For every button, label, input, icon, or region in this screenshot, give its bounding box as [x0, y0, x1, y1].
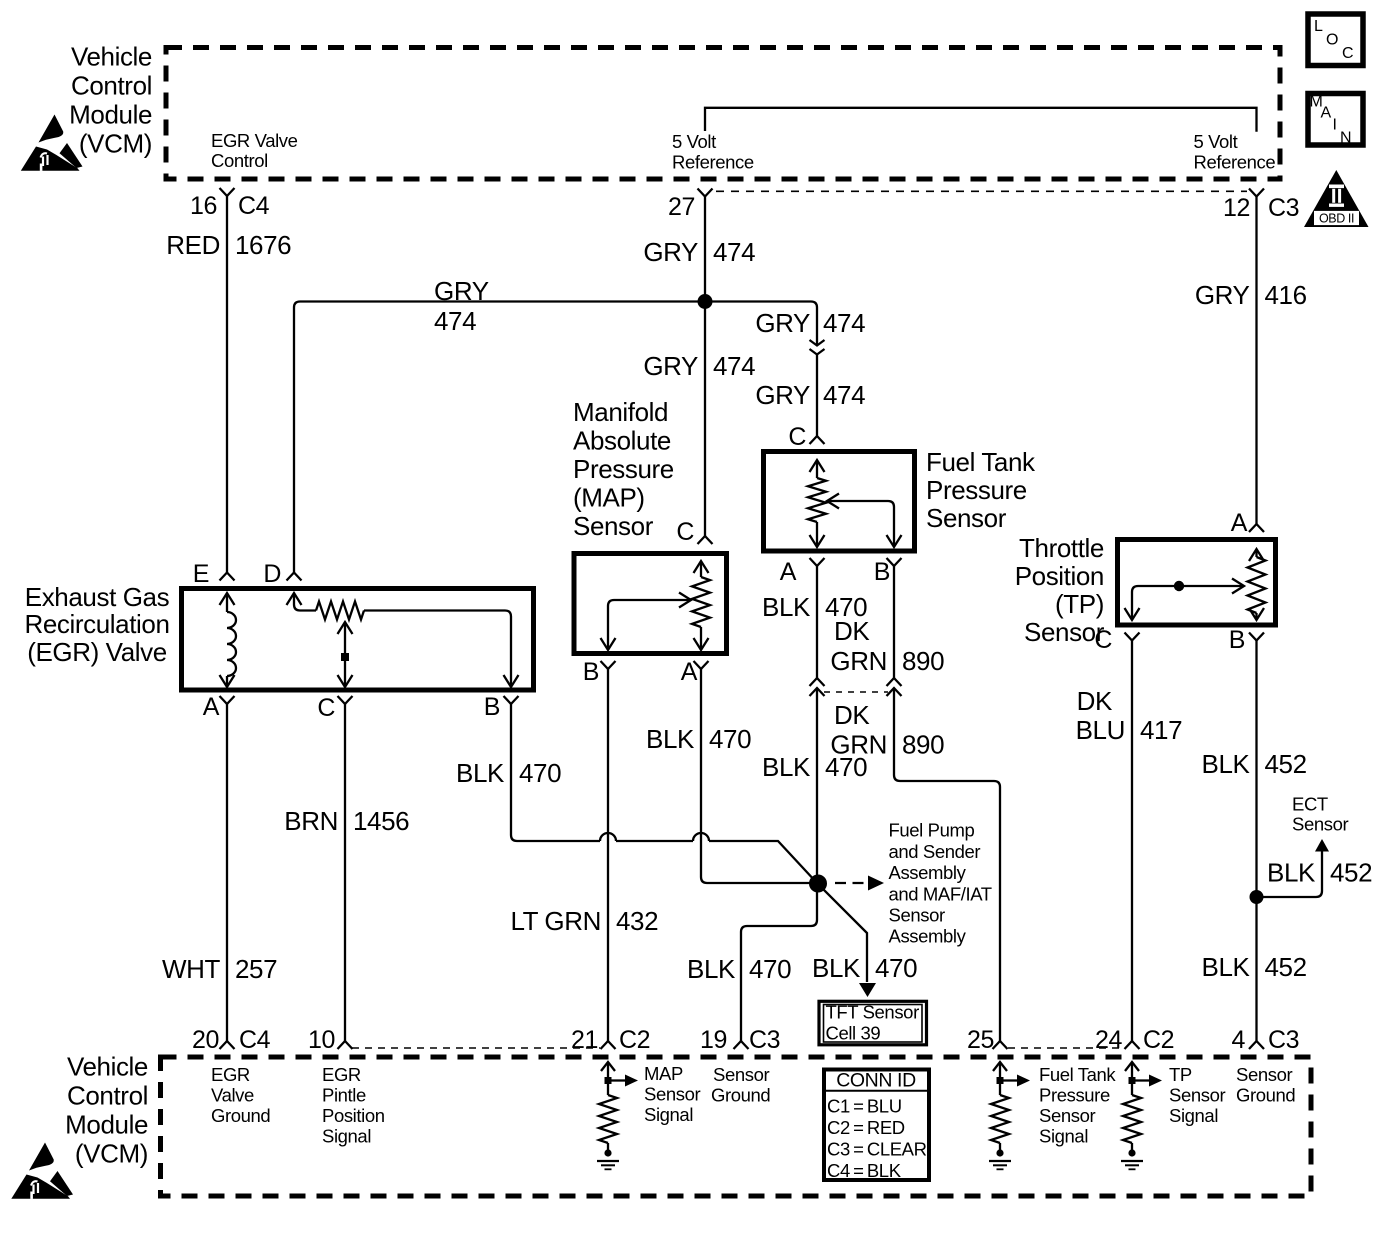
svg-text:Cell 39: Cell 39 — [826, 1023, 881, 1044]
component: CONN ID table — [824, 1070, 929, 1182]
wire: GRY 474 (pin 27 down to MAP pin C) — [704, 197, 706, 537]
TP sensor wiper arrow with dot — [1125, 579, 1245, 621]
svg-text:C2: C2 — [1143, 1026, 1174, 1054]
MAP sensor wiper arrow — [601, 593, 692, 651]
svg-text:890: 890 — [902, 730, 944, 760]
pin 24 C2 (VCM bottom) — [1095, 1026, 1174, 1054]
module: Vehicle Control Module (VCM) top dashed box — [166, 48, 1280, 180]
pin 19 C3 (VCM bottom) — [700, 1026, 780, 1054]
svg-text:Ground: Ground — [1236, 1085, 1295, 1106]
svg-text:C: C — [1342, 45, 1353, 62]
label: BLK 470 (above connector) — [762, 592, 867, 622]
dashed arrow: splice to fuel pump/MAF assembly — [835, 876, 884, 891]
svg-text:Sensor: Sensor — [644, 1084, 700, 1105]
svg-text:E: E — [193, 560, 209, 588]
svg-text:10: 10 — [308, 1026, 335, 1054]
Fuel Tank Pressure wiper arrow — [827, 494, 902, 548]
svg-text:Signal: Signal — [1039, 1126, 1088, 1147]
svg-text:Ground: Ground — [711, 1085, 770, 1106]
label: Sensor Ground (pin 4) — [1236, 1064, 1295, 1106]
svg-text:B: B — [874, 558, 890, 586]
label: GRY 474 (below splice) — [643, 351, 755, 381]
svg-text:RED: RED — [166, 230, 220, 260]
svg-text:Reference: Reference — [672, 152, 754, 173]
svg-text:DK: DK — [834, 616, 870, 646]
svg-text:Control: Control — [211, 150, 268, 171]
VCM input resistor + ground for TP sensor signal (pin 24) — [1121, 1062, 1162, 1169]
EGR solenoid coil winding — [220, 593, 237, 687]
pin C (Fuel Tank Pressure) — [788, 423, 824, 451]
in-line connector on DK GRN 890 wire — [887, 678, 902, 696]
svg-text:Sensor: Sensor — [713, 1064, 769, 1085]
svg-text:452: 452 — [1265, 749, 1307, 779]
svg-text:CONN ID: CONN ID — [836, 1070, 916, 1092]
label: DK GRN 890 (above connector) — [830, 616, 944, 676]
svg-text:C3: C3 — [1268, 1026, 1299, 1054]
svg-text:470: 470 — [749, 954, 791, 984]
svg-text:Signal: Signal — [1169, 1105, 1218, 1126]
svg-text:EGR: EGR — [211, 1064, 250, 1085]
svg-text:A: A — [1231, 509, 1248, 537]
pin A (TP) — [1231, 509, 1264, 537]
junction: sensor ground splice (black dot) — [809, 875, 827, 893]
pin 21 C2 (VCM bottom) — [571, 1026, 650, 1054]
svg-text:27: 27 — [668, 193, 695, 221]
in-line connector on GRY 474 wire — [810, 340, 825, 355]
svg-text:TFT Sensor: TFT Sensor — [826, 1002, 920, 1023]
pin 12 C3 (VCM top) — [1223, 189, 1299, 223]
Fuel Tank Pressure potentiometer element — [808, 460, 826, 547]
wire: GRY 416 (pin 12 to TP sensor pin A) — [1255, 197, 1257, 525]
pin A (MAP) — [681, 658, 709, 686]
in-line connector on BLK 470 wire — [810, 678, 825, 696]
svg-text:GRN: GRN — [830, 730, 887, 760]
svg-text:(VCM): (VCM) — [79, 129, 152, 159]
svg-text:C: C — [1094, 626, 1112, 654]
component: Exhaust Gas Recirculation (EGR) Valve box — [182, 589, 534, 691]
svg-text:Sensor: Sensor — [1292, 814, 1348, 835]
pin B (Fuel Tank Pressure) — [874, 558, 902, 586]
svg-text:417: 417 — [1140, 715, 1182, 745]
svg-text:L: L — [1314, 18, 1323, 35]
label: EGR Pintle Position Signal — [322, 1064, 385, 1147]
svg-text:Pressure: Pressure — [573, 454, 674, 484]
svg-text:Sensor: Sensor — [1236, 1064, 1292, 1085]
svg-text:Sensor: Sensor — [573, 511, 654, 541]
svg-text:BLK: BLK — [812, 953, 861, 983]
pin B (TP) — [1229, 626, 1264, 654]
svg-text:C3: C3 — [749, 1026, 780, 1054]
svg-text:16: 16 — [190, 192, 217, 220]
svg-text:470: 470 — [875, 953, 917, 983]
pin E (EGR) — [193, 560, 235, 588]
label: WHT 257 — [162, 954, 277, 984]
svg-text:C4 = BLK: C4 = BLK — [827, 1160, 902, 1181]
svg-text:(VCM): (VCM) — [75, 1139, 148, 1169]
svg-text:A: A — [681, 658, 698, 686]
svg-text:BLK: BLK — [646, 724, 695, 754]
svg-text:Fuel Pump: Fuel Pump — [889, 820, 975, 841]
svg-text:19: 19 — [700, 1026, 727, 1054]
svg-text:B: B — [484, 693, 500, 721]
svg-text:Manifold: Manifold — [573, 397, 668, 427]
svg-text:Exhaust Gas: Exhaust Gas — [25, 582, 170, 612]
pin 10 (VCM bottom) — [308, 1026, 353, 1054]
label: 5 Volt Reference (right) — [1194, 131, 1276, 173]
svg-text:GRY: GRY — [643, 351, 698, 381]
svg-text:LT GRN: LT GRN — [510, 906, 601, 936]
icon: OBD II symbol — [1304, 170, 1369, 227]
svg-text:452: 452 — [1265, 952, 1307, 982]
label: LT GRN 432 — [510, 906, 658, 936]
svg-text:BLK: BLK — [1267, 858, 1316, 888]
svg-text:Reference: Reference — [1194, 152, 1276, 173]
wire: BLK 470 (EGR B to sensor-ground splice) — [511, 704, 817, 883]
svg-text:1676: 1676 — [235, 230, 291, 260]
pin A (Fuel Tank Pressure) — [780, 558, 825, 586]
svg-text:GRN: GRN — [830, 646, 887, 676]
svg-text:N: N — [1340, 130, 1351, 147]
label: EGR Valve Control (VCM pin function) — [211, 130, 298, 171]
component: TFT Sensor Cell 39 box — [819, 1001, 927, 1045]
component: Fuel Tank Pressure Sensor box — [764, 452, 915, 552]
svg-text:Position: Position — [1015, 561, 1104, 591]
svg-text:BLK: BLK — [1202, 749, 1251, 779]
svg-text:C: C — [676, 518, 694, 546]
svg-text:A: A — [780, 558, 797, 586]
label: DK GRN 890 (below connector) — [830, 700, 944, 760]
svg-text:20: 20 — [192, 1026, 219, 1054]
svg-text:A: A — [203, 693, 220, 721]
svg-text:D: D — [263, 560, 281, 588]
wire: GRY 474 branch to Fuel Tank Pressure sensor pin C — [705, 302, 817, 437]
connector boundary dashed line pins 25-24 — [1008, 1047, 1124, 1049]
svg-text:GRY: GRY — [755, 308, 810, 338]
svg-text:474: 474 — [713, 237, 755, 267]
svg-text:Control: Control — [67, 1081, 148, 1111]
label: GRY 474 (above in-line connector) — [755, 308, 865, 338]
label: MAP Sensor Signal — [644, 1063, 700, 1125]
pin B (EGR) — [484, 693, 519, 721]
svg-text:Recirculation: Recirculation — [24, 609, 169, 639]
wire: BLK 452 branch to ECT sensor — [1257, 851, 1323, 897]
svg-text:BLK: BLK — [762, 592, 811, 622]
EGR pintle position potentiometer — [287, 593, 519, 687]
TP sensor potentiometer element — [1248, 549, 1266, 620]
svg-text:BLK: BLK — [1202, 952, 1251, 982]
MAP sensor potentiometer element — [692, 561, 710, 650]
svg-text:ECT: ECT — [1292, 794, 1328, 815]
label: Fuel Tank Pressure Sensor — [926, 447, 1036, 533]
label: Exhaust Gas Recirculation (EGR) Valve — [24, 582, 169, 667]
svg-text:BLK: BLK — [687, 954, 736, 984]
svg-text:GRY: GRY — [643, 237, 698, 267]
label: Manifold Absolute Pressure (MAP) Sensor — [573, 397, 674, 541]
svg-text:(TP): (TP) — [1055, 589, 1104, 619]
EGR pintle wiper arrow — [338, 622, 353, 687]
icon: MAIN hotlink box — [1308, 94, 1363, 147]
svg-text:Module: Module — [65, 1110, 148, 1140]
svg-text:C: C — [788, 423, 806, 451]
component: Throttle Position (TP) Sensor box — [1118, 540, 1276, 626]
svg-text:Control: Control — [71, 71, 152, 101]
pin 20 C4 (VCM bottom) — [192, 1026, 271, 1054]
svg-text:WHT: WHT — [162, 954, 221, 984]
svg-text:Pressure: Pressure — [926, 475, 1027, 505]
label: Vehicle Control Module (VCM) top — [69, 42, 152, 159]
label: BLK 452 (lower) — [1202, 952, 1307, 982]
junction: 5V reference splice — [698, 294, 713, 309]
svg-text:C4: C4 — [239, 1026, 271, 1054]
svg-text:Module: Module — [69, 100, 152, 130]
svg-text:MAP: MAP — [644, 1063, 683, 1084]
svg-text:470: 470 — [519, 758, 561, 788]
wire: splice to pin 19 (sensor ground) — [741, 883, 817, 1041]
label: BLK 470 (TFT wire) — [812, 953, 917, 983]
label: GRY 474 (above splice) — [643, 237, 755, 267]
label: Vehicle Control Module (VCM) bottom — [65, 1052, 148, 1169]
svg-text:I: I — [1333, 117, 1337, 134]
svg-text:Sensor: Sensor — [1024, 617, 1105, 647]
svg-text:Pintle: Pintle — [322, 1085, 366, 1106]
svg-text:C2 = RED: C2 = RED — [827, 1117, 905, 1138]
wire: splice to TFT sensor (BLK 470) — [817, 883, 867, 982]
pin A (EGR) — [203, 693, 235, 721]
wire: BRN 1456 (EGR C to pin 10) — [344, 704, 346, 1041]
label: DK BLU 417 — [1076, 686, 1183, 745]
svg-text:12: 12 — [1223, 194, 1250, 222]
svg-text:474: 474 — [823, 308, 865, 338]
svg-text:Absolute: Absolute — [573, 426, 671, 456]
svg-text:EGR Valve: EGR Valve — [211, 130, 298, 151]
label: ECT Sensor — [1292, 794, 1348, 835]
svg-text:GRY: GRY — [755, 380, 810, 410]
svg-text:5 Volt: 5 Volt — [1194, 131, 1238, 152]
svg-text:432: 432 — [616, 906, 658, 936]
svg-text:Sensor: Sensor — [1039, 1105, 1095, 1126]
svg-text:890: 890 — [902, 646, 944, 676]
svg-text:GRY: GRY — [434, 276, 489, 306]
wire: LT GRN 432 (MAP B to pin 21) — [607, 669, 609, 1041]
svg-text:Ground: Ground — [211, 1105, 270, 1126]
svg-text:C1 = BLU: C1 = BLU — [827, 1096, 902, 1117]
label: Fuel Tank Pressure Sensor Signal — [1039, 1064, 1116, 1147]
module: Vehicle Control Module (VCM) bottom dashed box — [161, 1057, 1312, 1196]
svg-text:1456: 1456 — [353, 806, 409, 836]
pin C (EGR) — [317, 694, 352, 722]
svg-text:Sensor: Sensor — [926, 503, 1007, 533]
svg-text:and Sender: and Sender — [889, 841, 981, 862]
svg-text:A: A — [1321, 105, 1332, 122]
label: BLK 452 (upper) — [1202, 749, 1307, 779]
svg-text:BLU: BLU — [1076, 715, 1125, 745]
component: Manifold Absolute Pressure (MAP) Sensor box — [574, 554, 727, 654]
pin B (MAP) — [583, 658, 616, 686]
label: BLK 452 (ECT branch) — [1267, 858, 1372, 888]
svg-text:474: 474 — [823, 380, 865, 410]
svg-text:474: 474 — [713, 351, 755, 381]
pin 27 (VCM top) — [668, 189, 713, 222]
svg-text:C: C — [317, 694, 335, 722]
wire: WHT 257 (EGR A to pin 20) — [226, 704, 228, 1041]
pin 16 C4 (VCM top) — [190, 188, 270, 220]
svg-text:C2: C2 — [619, 1026, 650, 1054]
solid arrow into TFT sensor — [859, 983, 876, 997]
svg-text:(MAP): (MAP) — [573, 483, 645, 513]
wire: GRY 474 branch to EGR pin D — [294, 302, 705, 573]
svg-text:474: 474 — [434, 306, 476, 336]
pin 4 C3 (VCM bottom) — [1231, 1026, 1299, 1054]
pin 25 (VCM bottom) — [967, 1026, 1008, 1054]
wire: DK GRN 890 (FTP B through in-line connector to pin 25) — [894, 566, 1000, 1041]
svg-text:Pressure: Pressure — [1039, 1085, 1110, 1106]
svg-text:Fuel Tank: Fuel Tank — [1039, 1064, 1116, 1085]
svg-text:EGR: EGR — [322, 1064, 361, 1085]
pin C (TP) — [1094, 626, 1139, 654]
connector boundary dashed line pins 10-21 — [352, 1047, 600, 1049]
label: GRY 416 — [1195, 280, 1307, 310]
svg-text:Position: Position — [322, 1105, 385, 1126]
svg-text:470: 470 — [709, 724, 751, 754]
svg-text:TP: TP — [1169, 1064, 1192, 1085]
label: BLK 470 (MAP A wire) — [646, 724, 751, 754]
ESD-sensitive device symbol (top) — [21, 115, 83, 171]
svg-text:Assembly: Assembly — [889, 926, 967, 947]
label: Sensor Ground (pin 19) — [711, 1064, 770, 1106]
label: BLK 470 (pin 19 wire) — [687, 954, 791, 984]
label: EGR Valve Ground — [211, 1064, 270, 1126]
label: Fuel Pump and Sender Assembly and MAF/IAT Sensor Assembly — [889, 820, 992, 947]
svg-text:Vehicle: Vehicle — [67, 1052, 148, 1082]
svg-text:C3: C3 — [1268, 194, 1299, 222]
label: Throttle Position (TP) Sensor — [1015, 533, 1105, 647]
svg-text:25: 25 — [967, 1026, 994, 1054]
svg-text:DK: DK — [1077, 686, 1113, 716]
svg-text:4: 4 — [1231, 1026, 1245, 1054]
wire: BLK 470 (MAP A to sensor-ground splice) — [701, 669, 817, 883]
svg-text:Sensor: Sensor — [889, 905, 945, 926]
svg-text:5 Volt: 5 Volt — [672, 131, 716, 152]
svg-text:Signal: Signal — [644, 1104, 693, 1125]
svg-text:DK: DK — [834, 700, 870, 730]
connector link dashed line — [824, 691, 888, 693]
ESD-sensitive device symbol (bottom) — [11, 1143, 73, 1199]
svg-text:21: 21 — [571, 1026, 598, 1054]
svg-text:Fuel Tank: Fuel Tank — [926, 447, 1036, 477]
label: BRN 1456 — [284, 806, 409, 836]
svg-text:BRN: BRN — [284, 806, 338, 836]
svg-text:Signal: Signal — [322, 1126, 371, 1147]
wire: RED 1676 (pin 16 to EGR pin E) — [226, 196, 228, 573]
svg-text:BLK: BLK — [456, 758, 505, 788]
connector boundary dashed line pins 27-12 — [716, 190, 1247, 192]
svg-text:B: B — [1229, 626, 1245, 654]
svg-text:O: O — [1326, 32, 1338, 49]
svg-text:452: 452 — [1330, 858, 1372, 888]
svg-text:and MAF/IAT: and MAF/IAT — [889, 884, 992, 905]
wire: BLK 470 (FTP A to in-line connector to splice) — [816, 566, 818, 883]
svg-text:24: 24 — [1095, 1026, 1123, 1054]
pin D (EGR) — [263, 560, 301, 588]
svg-text:Vehicle: Vehicle — [71, 42, 152, 72]
label: BLK 470 (EGR B wire) — [456, 758, 561, 788]
junction: ECT sensor splice — [1250, 890, 1264, 904]
svg-text:Throttle: Throttle — [1019, 533, 1104, 563]
svg-text:B: B — [583, 658, 599, 686]
icon: LOC hotlink box — [1308, 14, 1363, 66]
label: GRY 474 (horizontal branch) — [434, 276, 489, 336]
label: 5 Volt Reference (left) — [672, 131, 754, 173]
label: RED 1676 — [166, 230, 291, 260]
pin C (MAP) — [676, 518, 712, 546]
label: GRY 474 (below in-line connector) — [755, 380, 865, 410]
svg-text:Valve: Valve — [211, 1085, 254, 1106]
VCM input resistor + ground for MAP sensor signal (pin 21) — [597, 1062, 638, 1169]
label: TP Sensor Signal — [1169, 1064, 1225, 1126]
svg-text:BLK: BLK — [762, 752, 811, 782]
svg-text:Sensor: Sensor — [1169, 1085, 1225, 1106]
VCM input resistor + ground for Fuel Tank Pressure sensor signal (pin 25) — [989, 1062, 1030, 1169]
label: BLK 470 (below connector) — [762, 752, 867, 782]
svg-text:257: 257 — [235, 954, 277, 984]
wire: DK BLU 417 (TP C to pin 24) — [1131, 641, 1133, 1042]
solid arrow to ECT sensor — [1315, 839, 1329, 852]
svg-text:416: 416 — [1265, 280, 1307, 310]
svg-text:GRY: GRY — [1195, 280, 1250, 310]
wire: 5 volt reference bus inside VCM — [705, 108, 1257, 132]
svg-text:Assembly: Assembly — [889, 862, 967, 883]
svg-text:(EGR) Valve: (EGR) Valve — [27, 637, 167, 667]
svg-text:C4: C4 — [238, 192, 270, 220]
wire: BLK 452 (TP B to pin 4) — [1255, 641, 1257, 1042]
svg-text:OBD II: OBD II — [1319, 212, 1354, 226]
svg-text:C3 = CLEAR: C3 = CLEAR — [827, 1139, 927, 1160]
